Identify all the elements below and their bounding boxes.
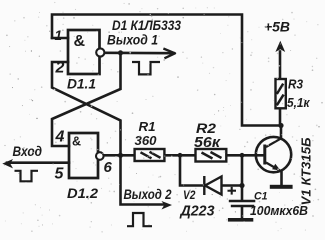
svg-text:D1.1: D1.1 (67, 75, 96, 91)
svg-text:D1.2: D1.2 (67, 185, 98, 201)
svg-text:+5В: +5В (264, 18, 290, 34)
svg-text:6: 6 (104, 159, 113, 176)
svg-text:56к: 56к (194, 135, 221, 151)
svg-text:2: 2 (55, 60, 65, 77)
svg-text:R2: R2 (196, 121, 217, 136)
svg-text:1: 1 (55, 28, 63, 43)
svg-text:360: 360 (135, 134, 157, 148)
svg-text:Вход: Вход (13, 144, 43, 159)
svg-text:С1: С1 (254, 191, 268, 203)
svg-text:V2: V2 (183, 188, 196, 202)
svg-text:Д223: Д223 (179, 204, 215, 220)
svg-text:Выход 1: Выход 1 (107, 31, 158, 47)
svg-text:5,1к: 5,1к (287, 95, 311, 110)
svg-text:5: 5 (55, 165, 65, 182)
svg-text:V1 КТ315Б: V1 КТ315Б (299, 138, 314, 206)
svg-text:Выход 2: Выход 2 (124, 186, 172, 202)
svg-text:4: 4 (55, 129, 65, 146)
svg-text:&: & (74, 33, 86, 50)
svg-text:R1: R1 (139, 120, 156, 134)
svg-text:R3: R3 (288, 77, 303, 91)
